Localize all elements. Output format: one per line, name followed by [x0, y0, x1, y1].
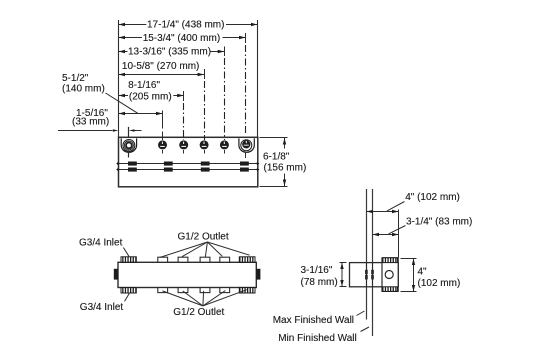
svg-text:(33 mm): (33 mm)	[72, 116, 109, 127]
svg-text:(102 mm): (102 mm)	[418, 278, 461, 289]
centerline P3	[183, 91, 185, 101]
svg-text:3-1/4" (83 mm): 3-1/4" (83 mm)	[406, 216, 472, 227]
body interior line lower	[118, 169, 258, 171]
body interior line upper	[118, 163, 258, 165]
wall line max segment through body	[366, 263, 368, 287]
hatch blocks row 1	[116, 162, 259, 166]
dim 4in right	[401, 259, 417, 292]
leader fan top	[160, 242, 250, 257]
dim line 17-1/4	[119, 24, 258, 26]
port P5	[220, 140, 229, 149]
front body	[118, 262, 256, 287]
leader 5-1/2	[106, 93, 139, 113]
side body main	[350, 263, 399, 287]
leader min wall	[361, 327, 370, 332]
svg-text:6-1/8": 6-1/8"	[263, 151, 290, 162]
svg-text:3-1/16": 3-1/16"	[301, 265, 333, 276]
leader 1-5/16 underline with arrow	[58, 130, 113, 132]
leader 3-1/4	[389, 226, 406, 234]
svg-text:(140 mm): (140 mm)	[62, 84, 105, 95]
wall line max	[366, 189, 368, 320]
side circle	[385, 271, 393, 279]
wall hatch marks inside body	[365, 270, 374, 280]
svg-text:G3/4 Inlet: G3/4 Inlet	[79, 237, 123, 248]
dim line 205mm	[119, 95, 184, 97]
wall line min	[372, 189, 374, 336]
port P4	[200, 140, 209, 149]
leader max wall	[357, 311, 365, 316]
top view body outline	[119, 137, 258, 187]
outlet stubs bottom	[158, 288, 230, 293]
svg-text:4": 4"	[418, 267, 428, 278]
svg-text:(156 mm): (156 mm)	[264, 163, 307, 174]
dim line 13-3/16	[119, 51, 225, 53]
port P3	[179, 140, 188, 149]
svg-text:(205 mm): (205 mm)	[129, 91, 172, 102]
dim line 5-1/2	[119, 113, 163, 115]
centerline P2	[162, 111, 164, 129]
port P1 large inlet fitting	[121, 138, 136, 152]
wall line min segment through body	[372, 263, 374, 287]
svg-text:15-3/4" (400 mm): 15-3/4" (400 mm)	[143, 33, 220, 44]
leader G3/4 bottom	[125, 293, 130, 302]
dim 4in top	[367, 211, 399, 213]
svg-text:G1/2 Outlet: G1/2 Outlet	[173, 307, 224, 318]
left end tab	[114, 269, 118, 280]
svg-text:13-3/16" (335 mm): 13-3/16" (335 mm)	[128, 47, 211, 58]
svg-text:17-1/4" (438 mm): 17-1/4" (438 mm)	[147, 20, 224, 31]
extension line right	[257, 20, 259, 138]
centerline P4	[204, 69, 206, 79]
outlet cap bottom-right	[239, 288, 255, 293]
outlet cap top-right	[239, 257, 255, 262]
dim 3-1/16 left ticks	[340, 263, 347, 287]
svg-text:Min Finished Wall: Min Finished Wall	[278, 333, 357, 344]
extension line right of top dims	[398, 210, 400, 258]
side sub-body right	[382, 258, 398, 292]
dim 6-1/8 line	[284, 138, 286, 186]
extension line left	[118, 20, 120, 138]
centerline P6	[245, 33, 247, 43]
leader 4in top	[387, 202, 405, 211]
svg-text:4" (102 mm): 4" (102 mm)	[405, 192, 460, 203]
svg-text:(78 mm): (78 mm)	[301, 277, 338, 288]
dim line 10-5/8	[119, 74, 205, 76]
dim 6-1/8 extension top	[260, 137, 288, 139]
svg-text:G1/2 Outlet: G1/2 Outlet	[178, 232, 229, 243]
dim 3-1/4	[373, 234, 399, 236]
right end tab	[256, 269, 260, 280]
port P2	[158, 140, 167, 149]
svg-text:10-5/8" (270 mm): 10-5/8" (270 mm)	[122, 61, 199, 72]
svg-text:G3/4 Inlet: G3/4 Inlet	[80, 302, 124, 313]
svg-text:8-1/16": 8-1/16"	[128, 80, 160, 91]
port P6 large outlet fitting	[239, 138, 254, 152]
leader fan bottom	[163, 290, 247, 306]
leader G3/4 top	[123, 248, 129, 257]
centerline P1	[128, 127, 130, 138]
dim 6-1/8 extension bottom	[260, 186, 288, 188]
hatch blocks row 2	[116, 168, 259, 172]
outlet stubs top	[158, 257, 230, 262]
1-5/16 right outside arrow	[131, 130, 142, 132]
side cap top	[383, 258, 398, 263]
inlet cap top-left	[121, 257, 136, 262]
dim line 15-3/4	[119, 37, 246, 39]
inlet cap bottom-left	[121, 288, 136, 293]
centerline P5	[224, 47, 226, 57]
svg-text:5-1/2": 5-1/2"	[62, 73, 89, 84]
svg-text:Max Finished Wall: Max Finished Wall	[273, 315, 354, 326]
side cap bottom	[383, 287, 398, 292]
